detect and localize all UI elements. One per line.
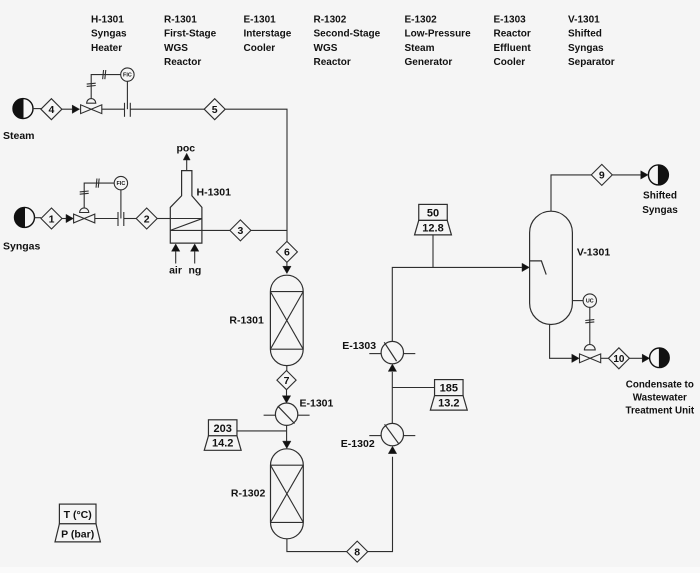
wire condensate valve to stream tag 10: [601, 357, 609, 359]
svg-text:Reactor: Reactor: [494, 29, 531, 40]
signal wire UC to condensate valve: [589, 307, 591, 345]
svg-text:5: 5: [212, 104, 218, 116]
ng feed wire: [194, 246, 196, 264]
svg-text:First-Stage: First-Stage: [164, 29, 217, 40]
wire valve to orifice (syngas): [95, 218, 118, 220]
svg-text:9: 9: [599, 170, 605, 182]
svg-text:R-1301: R-1301: [229, 315, 264, 327]
svg-text:R-1301: R-1301: [164, 15, 197, 26]
header label E-1302: [405, 15, 472, 69]
header label R-1301: [164, 15, 217, 69]
stream source Steam: [13, 99, 33, 119]
svg-text:Steam: Steam: [3, 130, 35, 142]
air feed wire: [175, 246, 177, 264]
air feed arrow: [172, 244, 180, 251]
feed arrow into R-1301: [283, 266, 291, 273]
wire stream tag 5 to junction corner: [225, 109, 287, 231]
stream tag 4: [41, 99, 62, 120]
svg-text:R-1302: R-1302: [314, 15, 347, 26]
stream tag 1: [41, 208, 62, 229]
flow arrow into steam valve: [72, 105, 79, 113]
svg-text:Second-Stage: Second-Stage: [314, 29, 381, 40]
flag branch wire 185/13.2: [392, 387, 434, 389]
steam generator E-1302: [369, 423, 415, 445]
level controller UC: [583, 294, 596, 307]
valve actuator diaphragm: [87, 99, 96, 104]
svg-text:E-1302: E-1302: [341, 438, 375, 450]
separator V-1301 vessel: [530, 211, 573, 324]
svg-text:E-1303: E-1303: [342, 340, 376, 352]
svg-text:4: 4: [48, 104, 54, 116]
wire V-1301 top outlet to stream tag 9: [551, 175, 591, 211]
svg-text:203: 203: [214, 423, 232, 435]
control valve steam: [81, 105, 102, 114]
wire stream tag 4 to valve: [62, 108, 80, 110]
wire heater outlet to stream tag 3: [202, 229, 230, 231]
stream tag 2: [136, 208, 157, 229]
signal tick marks on actuator stem (syngas): [80, 190, 89, 193]
flag connector wire T/P after E-1301: [237, 430, 287, 432]
control valve condensate: [580, 354, 601, 363]
control valve syngas: [74, 214, 95, 223]
wire stream tag 6 to reactor R-1301: [286, 262, 288, 272]
instrument lead FIC to orifice (steam): [126, 81, 128, 109]
svg-text:1: 1: [49, 213, 55, 225]
svg-text:10: 10: [613, 354, 625, 365]
svg-text:air: air: [169, 264, 182, 276]
svg-text:3: 3: [237, 225, 243, 237]
svg-text:Syngas: Syngas: [642, 205, 678, 216]
wire V-1301 bottom outlet: [550, 325, 573, 359]
svg-text:V-1301: V-1301: [577, 247, 610, 259]
feed arrow into E-1302: [388, 446, 396, 453]
reactor R-1301 vessel: [270, 275, 303, 365]
feed arrow into E-1301: [282, 396, 290, 403]
wire stream tag 8 up to E-1302: [368, 457, 393, 552]
svg-text:Wastewater: Wastewater: [633, 393, 687, 404]
svg-text:Shifted: Shifted: [568, 29, 602, 40]
ng feed arrow: [191, 244, 199, 251]
svg-text:Treatment Unit: Treatment Unit: [626, 406, 695, 417]
wire E-1301 to reactor R-1302: [286, 425, 288, 447]
wire E-1303 up and right to V-1301: [392, 267, 522, 341]
svg-text:Cooler: Cooler: [244, 43, 276, 54]
flow arrow to shifted syngas: [641, 171, 648, 179]
wire stream tag 1 to valve: [62, 218, 73, 220]
svg-text:8: 8: [354, 546, 360, 558]
stream tag 5: [204, 99, 225, 120]
svg-text:WGS: WGS: [164, 43, 188, 54]
header label E-1301: [244, 15, 292, 54]
svg-text:Syngas: Syngas: [3, 241, 41, 253]
instrument lead FIC to orifice (syngas): [120, 190, 122, 219]
flag connector wire 50/12.8: [432, 235, 434, 268]
svg-text:poc: poc: [176, 143, 195, 155]
poc vent wire: [186, 155, 188, 171]
svg-text:E-1302: E-1302: [405, 15, 438, 26]
svg-text:7: 7: [284, 375, 290, 387]
flow arrow into syngas valve: [66, 214, 73, 222]
T/P flag 203 / 14.2: [204, 420, 241, 451]
signal tick marks on UC stem: [585, 319, 594, 322]
svg-text:WGS: WGS: [314, 43, 338, 54]
svg-text:13.2: 13.2: [438, 398, 459, 410]
reactor R-1302 vessel: [271, 449, 304, 539]
wire R-1302 outlet to stream tag 8: [287, 539, 347, 552]
svg-text:FIC: FIC: [117, 181, 126, 187]
svg-text:Steam: Steam: [405, 43, 435, 54]
feed arrow into E-1303: [388, 364, 396, 371]
header label R-1302: [314, 15, 381, 69]
signal tick marks on horizontal signal (syngas): [95, 179, 98, 188]
heater internal tube diagonal: [170, 219, 202, 231]
svg-text:Shifted: Shifted: [643, 190, 677, 201]
stream tag 7: [277, 371, 296, 390]
stream tag 3: [230, 220, 251, 241]
wire junction to stream tag 6: [286, 230, 288, 241]
orifice plate flanges (steam): [124, 103, 126, 117]
stream tag 10: [608, 348, 629, 369]
stream tag 9: [591, 164, 612, 185]
interstage cooler E-1301: [264, 403, 310, 425]
header label H-1301: [91, 15, 127, 54]
svg-text:Low-Pressure: Low-Pressure: [405, 29, 472, 40]
wire E-1302 to E-1303: [391, 372, 393, 424]
condensate valve actuator diaphragm: [584, 345, 595, 350]
wire steam source to stream tag 4: [33, 108, 41, 110]
svg-text:Separator: Separator: [568, 57, 615, 68]
valve actuator diaphragm (syngas): [80, 208, 89, 213]
feed arrow into V-1301: [522, 263, 529, 271]
svg-text:FIC: FIC: [123, 73, 132, 79]
wire stream tag 7 to cooler E-1301: [286, 390, 288, 402]
svg-text:H-1301: H-1301: [91, 15, 124, 26]
svg-text:2: 2: [144, 213, 150, 225]
svg-text:Reactor: Reactor: [164, 57, 201, 68]
wire orifice to stream tag 5: [130, 108, 204, 110]
svg-text:E-1303: E-1303: [494, 15, 527, 26]
V-1301 inlet baffle: [530, 261, 546, 275]
svg-text:Cooler: Cooler: [494, 57, 526, 68]
svg-text:Syngas: Syngas: [568, 43, 604, 54]
stream tag 8: [347, 541, 368, 562]
svg-text:UC: UC: [586, 299, 594, 305]
svg-text:P (bar): P (bar): [61, 528, 94, 540]
svg-text:Generator: Generator: [405, 57, 453, 68]
svg-text:R-1302: R-1302: [231, 487, 266, 499]
svg-text:14.2: 14.2: [212, 438, 233, 450]
flow arrow to condensate outlet: [642, 354, 649, 362]
svg-text:185: 185: [440, 383, 458, 395]
svg-text:T (°C): T (°C): [64, 509, 92, 521]
poc vent arrow: [183, 153, 190, 160]
orifice plate flanges (syngas): [117, 212, 119, 226]
wire R-1301 outlet to stream tag 7: [286, 366, 288, 371]
instrument lead V-1301 to UC: [572, 300, 583, 302]
signal wire actuator to FIC (steam): [91, 75, 121, 99]
svg-text:12.8: 12.8: [422, 222, 443, 234]
svg-text:Effluent: Effluent: [494, 43, 532, 54]
svg-text:Heater: Heater: [91, 43, 122, 54]
wire stream tag 10 to condensate outlet: [629, 357, 642, 359]
wire stream tag 3 to junction: [251, 229, 287, 231]
svg-text:50: 50: [427, 207, 439, 219]
feed arrow into R-1302: [283, 441, 291, 448]
svg-text:E-1301: E-1301: [300, 398, 334, 410]
heater internal tube pass upper: [170, 218, 202, 220]
svg-text:E-1301: E-1301: [244, 15, 277, 26]
wire orifice to stream tag 2: [124, 218, 136, 220]
svg-text:H-1301: H-1301: [197, 187, 232, 199]
signal wire actuator to FIC (syngas): [84, 183, 114, 208]
svg-text:Syngas: Syngas: [91, 29, 127, 40]
stream source Syngas: [15, 207, 35, 227]
svg-text:V-1301: V-1301: [568, 15, 600, 26]
T/P flag 50 / 12.8: [415, 204, 452, 235]
flow arrow into condensate valve: [572, 354, 579, 362]
svg-text:Reactor: Reactor: [314, 57, 351, 68]
stream tag 6: [276, 241, 297, 262]
heater H-1301 body: [170, 171, 202, 244]
flow controller FIC (steam): [121, 68, 134, 81]
header label E-1303: [494, 15, 532, 69]
stream sink Shifted Syngas: [648, 165, 668, 185]
signal tick marks on actuator stem (steam): [87, 82, 96, 85]
wire stream tag 2 to heater H-1301: [157, 218, 170, 220]
signal tick marks on horizontal signal (steam): [102, 70, 105, 79]
svg-text:6: 6: [284, 247, 290, 259]
header label V-1301: [568, 15, 615, 69]
svg-text:Condensate to: Condensate to: [626, 380, 694, 391]
svg-text:ng: ng: [188, 264, 201, 276]
heater internal tube lower: [170, 229, 202, 231]
wire syngas source to stream tag 1: [35, 217, 42, 219]
stream sink Condensate: [650, 348, 670, 368]
T/P flag 185 / 13.2: [430, 380, 467, 411]
legend flag T(C) / P(bar): [55, 504, 100, 542]
flow controller FIC (syngas): [114, 176, 127, 189]
svg-text:Interstage: Interstage: [244, 29, 292, 40]
wire stream tag 9 to shifted syngas outlet: [612, 174, 641, 176]
reactor effluent cooler E-1303: [369, 341, 415, 363]
wire valve to orifice (steam): [102, 108, 125, 110]
